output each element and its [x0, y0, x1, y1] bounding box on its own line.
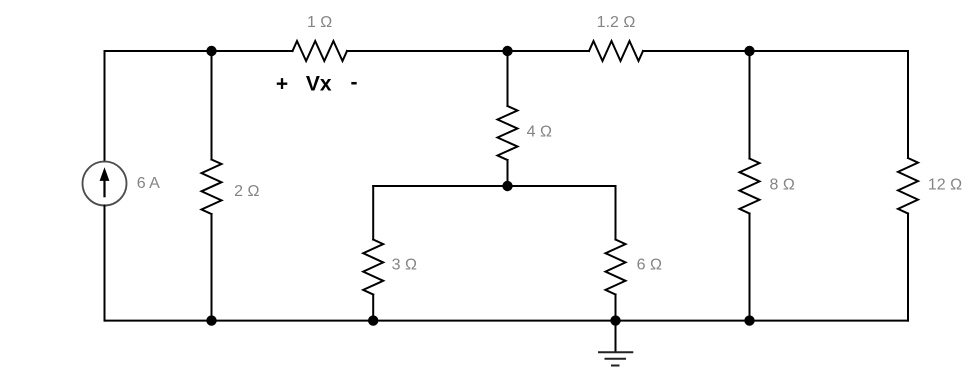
wire 4-ohm branch upper stub: [507, 51, 509, 106]
node F (bottom of 3-ohm): [368, 315, 378, 325]
wire middle horizontal (3-ohm to 6-ohm tops): [373, 185, 615, 187]
svg-text:8 Ω: 8 Ω: [770, 177, 795, 194]
svg-text:1 Ω: 1 Ω: [307, 14, 332, 31]
wire 3-ohm branch upper stub: [372, 186, 374, 240]
node E (bottom of 2-ohm): [206, 315, 216, 325]
wire left rail lower stub: [104, 206, 106, 321]
svg-text:1.2 Ω: 1.2 Ω: [597, 14, 636, 31]
wire 8-ohm branch upper stub: [749, 51, 751, 159]
wire top-middle (1-ohm to 1.2-ohm): [347, 50, 589, 52]
node A (top of 2-ohm): [206, 46, 216, 56]
svg-text:6 Ω: 6 Ω: [637, 256, 662, 273]
wire right rail upper stub: [907, 51, 909, 158]
wire 6-ohm branch lower stub: [615, 295, 617, 321]
svg-text:-: -: [351, 71, 358, 94]
node D (middle junction at 4-ohm bottom): [502, 181, 512, 191]
resistor R4 4 ohm: [498, 106, 518, 160]
resistor R5 3 ohm: [363, 240, 383, 295]
wire 8-ohm branch lower stub: [749, 214, 751, 321]
wire 3-ohm branch lower stub: [372, 295, 374, 321]
svg-text:2 Ω: 2 Ω: [234, 183, 259, 200]
resistor R2 1.2 ohm: [589, 41, 643, 61]
current source I1 circle: [83, 162, 127, 206]
wire left rail upper stub: [104, 51, 106, 162]
ground symbol: [598, 321, 633, 366]
wire top-left (current source to 1-ohm): [105, 50, 293, 52]
svg-text:Vx: Vx: [306, 73, 332, 96]
current source I1 arrow: [100, 167, 110, 197]
resistor R7 8 ohm: [740, 159, 760, 214]
node G (bottom of 6-ohm / ground): [610, 315, 620, 325]
node C (top of 8-ohm): [744, 46, 754, 56]
svg-text:6 A: 6 A: [137, 175, 160, 192]
wire right rail lower stub: [907, 214, 909, 321]
svg-text:3 Ω: 3 Ω: [392, 256, 417, 273]
resistor R3 2 ohm: [202, 160, 222, 215]
resistor R8 12 ohm: [898, 158, 918, 214]
node B (top of 4-ohm): [502, 46, 512, 56]
svg-text:12 Ω: 12 Ω: [928, 177, 962, 194]
wire 2-ohm branch upper stub: [211, 51, 213, 160]
wire bottom rail: [105, 320, 909, 322]
wire 4-ohm branch lower stub: [507, 160, 509, 186]
svg-text:+: +: [276, 73, 288, 96]
wire 2-ohm branch lower stub: [211, 214, 213, 321]
svg-text:4 Ω: 4 Ω: [527, 123, 552, 140]
wire top-right (1.2-ohm to right rail): [643, 50, 908, 52]
wire 6-ohm branch upper stub: [615, 186, 617, 240]
node H (bottom of 8-ohm): [744, 315, 754, 325]
resistor R1 1 ohm: [293, 41, 348, 61]
resistor R6 6 ohm: [606, 240, 626, 295]
